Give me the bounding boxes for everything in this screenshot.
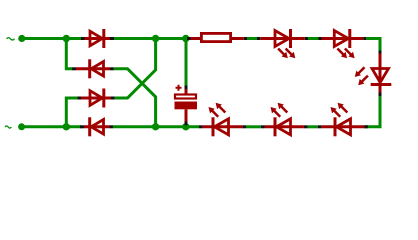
junction dot bottom left [63,123,70,130]
LED LED4 light arrows [271,103,288,117]
junction dot top bridge [152,35,159,42]
LED LED3 body [203,117,243,136]
LED LED2 pin overlap right [363,37,366,40]
LED LED5 body [321,117,364,136]
wire bottom rail left [22,125,81,128]
diode D4 body [84,117,110,136]
wire bottom rail middle [113,125,199,128]
node AC2 tilde [5,126,11,128]
diode D3 body [81,89,111,108]
junction dot bottom cap [182,123,189,130]
node AC1 tilde [7,38,15,40]
node AC1 terminal pin dot [18,35,25,42]
LED LED6 light arrows [355,67,368,85]
LED LED2 body [322,29,364,48]
resistor R1 body [191,33,244,41]
LED LED5 pin overlap right [364,125,368,128]
diode D2 body [76,59,110,78]
LED LED2 light arrows [337,49,354,59]
LED LED4 pin overlap right [304,125,308,128]
wire bottom rail between LED3 and LED4 [246,125,261,128]
LED LED1 pin overlap right [305,37,308,40]
LED LED6 pin overlap bottom [379,93,382,97]
diode D3 pin overlap right [111,97,115,100]
wire top rail between LED1 and LED2 [308,37,319,40]
diode D1 pin overlap left [81,37,85,40]
LED LED3 pin overlap left [199,125,203,128]
LED LED2 pin overlap left [319,37,322,40]
junction dot top left [63,35,70,42]
resistor R1 pin overlap right [244,37,248,40]
diode D4 pin overlap right [110,125,114,128]
diode D1 pin overlap right [110,37,114,40]
wire right column below LED6 with corner left [364,96,380,127]
LED LED1 body [260,29,304,48]
LED LED1 light arrows [278,49,295,59]
LED LED5 light arrows [331,103,348,117]
capacitor C1 body [175,85,198,122]
wire top rail left [22,37,81,40]
LED LED6 pin overlap top [379,51,382,54]
diode D2 pin overlap right [110,67,114,70]
LED LED4 pin overlap left [261,125,265,128]
wire top rail middle [114,37,187,40]
junction dot top cap [182,35,189,42]
wire bridge crossover from D2 down to bottom rail [114,69,156,127]
node AC2 terminal pin dot [18,123,25,130]
diode D4 pin overlap left [80,125,84,128]
wire top rail right with corner down [366,39,380,51]
wire left rise from bottom rail to D3 [66,98,77,127]
wire top rail after resistor [247,37,257,40]
capacitor C1 pin overlap top [185,86,188,90]
wire bridge crossover from D3 up to top rail [115,39,156,99]
wire cap drop from top rail [185,39,188,86]
capacitor C1 pin overlap bottom [185,122,188,126]
LED LED6 body vertical [371,54,392,93]
diode D1 body [85,29,111,48]
LED LED4 body [265,117,304,136]
wire left drop from top rail to D2 [66,39,72,69]
junction dot bottom bridge [152,123,159,130]
diode D2 pin overlap left [72,67,76,70]
wire bottom rail between LED4 and LED5 [308,125,318,128]
LED LED3 pin overlap right [242,125,246,128]
LED LED5 pin overlap left [318,125,322,128]
diode D3 pin overlap left [77,97,81,100]
LED LED3 light arrows [209,103,226,117]
resistor R1 pin overlap left [187,37,191,40]
LED LED1 pin overlap left [257,37,260,40]
